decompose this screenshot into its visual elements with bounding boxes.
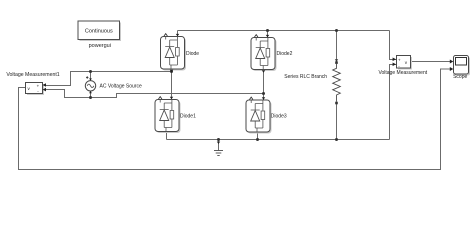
- svg-text:Scope: Scope: [453, 74, 467, 80]
- wire top rail left drop to Diode: [177, 31, 179, 37]
- node junction Diode2 top: [266, 29, 269, 32]
- wire ground stub: [218, 140, 220, 151]
- diode D top-left "Diode": [161, 34, 200, 73]
- wire AC+ to left bridge leg: [45, 72, 172, 86]
- wire RLC bottom: [336, 103, 338, 140]
- powergui block: [78, 21, 121, 49]
- wire Diode2 top stub: [267, 31, 269, 38]
- svg-text:Diode: Diode: [186, 51, 199, 57]
- wire Voltage Measurement output to Scope in1: [411, 61, 451, 63]
- scope: [450, 56, 470, 81]
- node junction Diode3 bottom: [256, 138, 259, 141]
- svg-text:AC Voltage Source: AC Voltage Source: [100, 84, 142, 90]
- wire AC source top stub: [90, 72, 92, 81]
- diode D1 bottom-left "Diode1": [155, 97, 196, 133]
- node junction left leg / AC+: [170, 70, 173, 73]
- node junction right leg / AC-: [262, 92, 265, 95]
- svg-text:Continuous: Continuous: [85, 28, 113, 34]
- svg-text:Diode1: Diode1: [180, 114, 196, 120]
- svg-text:Series RLC Branch: Series RLC Branch: [284, 74, 327, 80]
- ground: [214, 142, 223, 156]
- wire AC source bottom stub: [90, 91, 92, 98]
- wire AC- from Voltage Measurement1 minus: [45, 90, 264, 98]
- diode D2 top-right "Diode2": [251, 35, 293, 73]
- wire Diode1 bottom stub: [166, 132, 168, 140]
- node junction ground: [217, 138, 220, 141]
- wire top rail right drop to Voltage Measurement +: [390, 31, 397, 60]
- resistor: series RLC branch: [284, 59, 340, 104]
- svg-text:Voltage Measurement1: Voltage Measurement1: [6, 72, 59, 78]
- wire bottom rail rise to Voltage Measurement -: [390, 65, 397, 140]
- node junction RLC top: [335, 29, 338, 32]
- node junction RLC bottom: [335, 138, 338, 141]
- wire right bridge leg (Diode2 anode to Diode3 cathode): [263, 70, 265, 101]
- svg-text:Diode3: Diode3: [271, 114, 287, 120]
- wire RLC top: [336, 31, 338, 63]
- wire Diode3 bottom stub: [257, 132, 259, 140]
- wire Voltage Measurement1 output feedback to Scope in2: [19, 69, 451, 170]
- voltage measurement VM1 (flipped): [6, 72, 59, 95]
- diode D3 bottom-right "Diode3": [246, 97, 287, 133]
- wire left bridge leg (Diode anode to Diode1 cathode): [171, 69, 173, 100]
- svg-text:Diode2: Diode2: [277, 51, 293, 57]
- node junction AC+: [89, 70, 92, 73]
- voltage measurement VM2: [378, 56, 427, 77]
- svg-text:+: +: [398, 58, 401, 63]
- AC voltage source: [85, 76, 142, 93]
- wire top rail DC+: [178, 30, 390, 32]
- node junction AC-: [89, 96, 92, 99]
- svg-text:Voltage Measurement: Voltage Measurement: [378, 70, 427, 76]
- wire bottom rail DC-: [167, 139, 390, 141]
- svg-text:powergui: powergui: [89, 43, 111, 49]
